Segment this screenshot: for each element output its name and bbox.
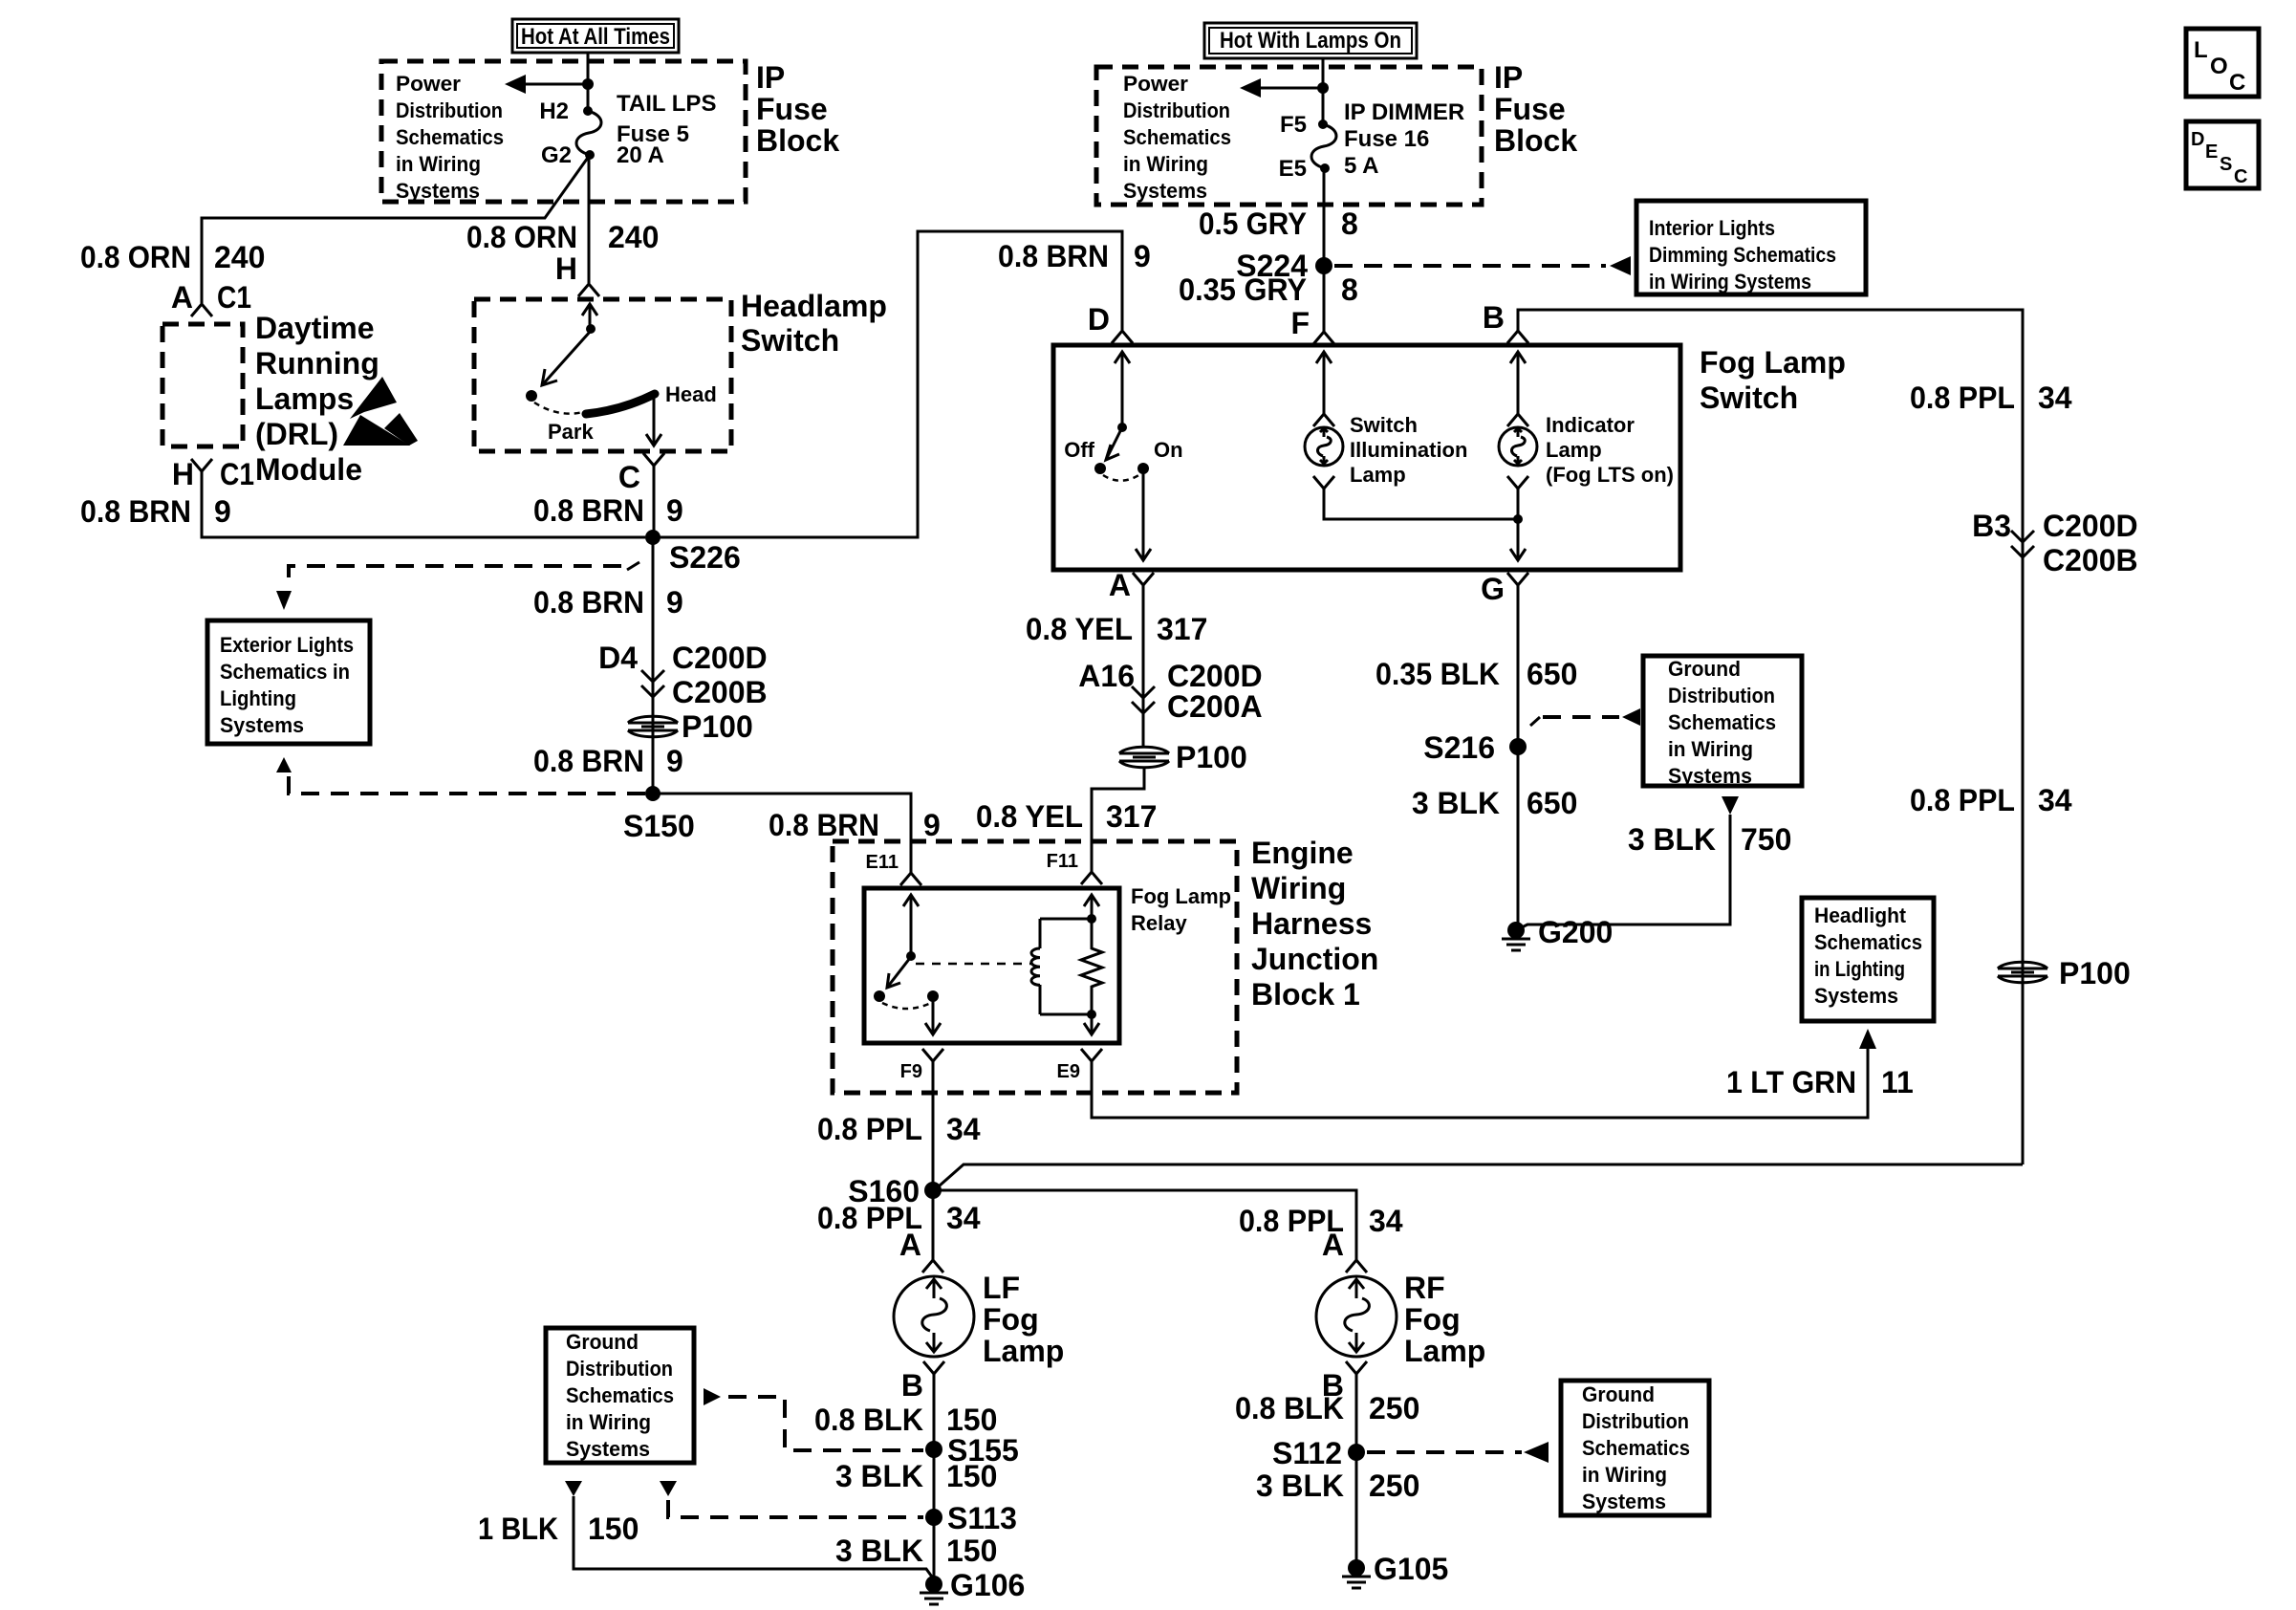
svg-text:Schematics in: Schematics in — [220, 660, 350, 684]
label 3 BLK 750 — [1628, 822, 1791, 857]
wire S226 to fog lamp switch D — [653, 231, 1122, 537]
svg-text:Fog Lamp: Fog Lamp — [1700, 345, 1846, 380]
svg-text:250: 250 — [1369, 1391, 1419, 1425]
svg-text:0.8 PPL: 0.8 PPL — [1910, 783, 2015, 817]
label 0.8 BRN 9 (below P100) — [533, 744, 683, 778]
svg-text:Fog Lamp: Fog Lamp — [1131, 884, 1231, 908]
svg-text:Block: Block — [756, 123, 839, 158]
connector C out of headlamp switch — [618, 453, 664, 494]
svg-text:Power: Power — [1123, 72, 1188, 96]
dashed reference from S226 to exterior lights — [276, 562, 639, 610]
svg-text:IP DIMMER: IP DIMMER — [1344, 99, 1464, 125]
svg-text:Distribution: Distribution — [396, 98, 503, 122]
label 0.35 GRY 8 — [1179, 272, 1358, 307]
svg-text:Switch: Switch — [1700, 381, 1798, 415]
svg-text:240: 240 — [608, 220, 659, 254]
wire fuse G2 down to headlamp switch — [588, 155, 591, 283]
svg-text:240: 240 — [214, 240, 265, 274]
wire fog switch B up and right — [1518, 310, 2023, 1164]
wire F9 down to S160 — [932, 1061, 935, 1190]
headlight schematics box — [1802, 898, 1934, 1021]
wire hot with lamps on into fuse 16 — [1322, 58, 1325, 124]
svg-text:0.8 BLK: 0.8 BLK — [1235, 1391, 1344, 1425]
label 1 BLK 150 — [478, 1512, 639, 1546]
label 0.8 PPL 34 (right run) — [1910, 783, 2072, 817]
svg-text:0.8 BRN: 0.8 BRN — [533, 585, 644, 620]
connector B out of LF fog lamp — [901, 1361, 944, 1403]
svg-text:317: 317 — [1157, 612, 1207, 646]
fuse terminal F5 — [1318, 120, 1328, 129]
wire P100 jog to F11 — [1092, 767, 1144, 872]
svg-text:Harness: Harness — [1251, 906, 1372, 941]
relay switch contacts — [874, 895, 941, 1034]
wire DRL H to S226 — [202, 471, 645, 537]
svg-text:L: L — [2194, 37, 2208, 63]
wire LF lamp to G106 — [933, 1374, 936, 1584]
svg-text:S216: S216 — [1423, 730, 1495, 765]
svg-text:Interior Lights: Interior Lights — [1649, 216, 1775, 240]
exterior lights schematics box — [207, 620, 370, 744]
ground distribution box (right) — [1561, 1381, 1709, 1515]
switch illumination lamp — [1305, 352, 1518, 519]
svg-text:250: 250 — [1369, 1469, 1419, 1503]
fog lamp relay label — [1131, 884, 1231, 935]
label 0.8 PPL 34 (F9) — [817, 1112, 981, 1146]
svg-text:0.8 BRN: 0.8 BRN — [769, 808, 879, 842]
svg-text:Systems: Systems — [1814, 984, 1898, 1008]
svg-text:Ground: Ground — [1668, 657, 1741, 681]
svg-text:C: C — [2229, 70, 2245, 96]
svg-text:9: 9 — [666, 493, 683, 528]
arrow up to headlight schematics — [1859, 1029, 1876, 1049]
svg-text:G105: G105 — [1374, 1552, 1448, 1586]
label 0.8 BLK 150 — [814, 1403, 997, 1437]
label 0.8 PPL 34 (fog switch B) — [1910, 381, 2072, 415]
svg-text:P100: P100 — [1176, 740, 1247, 774]
svg-text:B: B — [1483, 300, 1505, 335]
svg-text:S113: S113 — [947, 1501, 1017, 1535]
svg-text:Junction: Junction — [1251, 942, 1378, 976]
svg-text:750: 750 — [1741, 822, 1791, 857]
svg-text:0.8 YEL: 0.8 YEL — [976, 799, 1083, 834]
svg-text:9: 9 — [923, 808, 941, 842]
svg-text:Schematics: Schematics — [1123, 125, 1231, 149]
fuse IP DIMMER Fuse 16 5A — [1279, 99, 1465, 182]
connector A out of fog lamp switch — [1109, 568, 1154, 602]
svg-text:3 BLK: 3 BLK — [1628, 822, 1716, 857]
svg-text:IP: IP — [756, 60, 785, 95]
svg-text:G106: G106 — [950, 1568, 1025, 1602]
label 0.35 BLK 650 — [1375, 657, 1577, 691]
relay coil — [1031, 895, 1099, 1014]
svg-text:S150: S150 — [623, 809, 695, 843]
svg-text:Lamps: Lamps — [255, 381, 354, 416]
wire C to S226 — [653, 466, 656, 537]
svg-text:Hot With Lamps On: Hot With Lamps On — [1220, 28, 1401, 54]
wire 1 BLK 150 to G106 — [574, 1496, 934, 1579]
svg-text:Running: Running — [255, 346, 379, 381]
label 0.8 YEL 317 (to F11) — [976, 799, 1157, 834]
fog lamp switch box — [1053, 345, 1680, 570]
svg-text:Schematics: Schematics — [1582, 1436, 1690, 1460]
svg-text:A: A — [1322, 1228, 1344, 1262]
svg-text:A: A — [899, 1228, 921, 1262]
relay mechanical link — [916, 963, 1032, 966]
svg-text:Distribution: Distribution — [1123, 98, 1230, 122]
wire S226 down to S150 — [652, 537, 655, 794]
svg-text:Power: Power — [396, 72, 461, 96]
fuse TAIL LPS Fuse 5 20A — [541, 91, 716, 168]
svg-text:C200D: C200D — [672, 641, 768, 675]
svg-text:0.8 BRN: 0.8 BRN — [533, 744, 644, 778]
svg-text:in Wiring: in Wiring — [396, 152, 481, 176]
wire S160 down to LF lamp — [932, 1190, 935, 1260]
svg-text:E5: E5 — [1279, 156, 1307, 182]
svg-text:Lighting: Lighting — [220, 686, 296, 710]
fog lamp switch label — [1700, 345, 1846, 415]
label 3 BLK 250 — [1256, 1469, 1419, 1503]
label 0.8 BRN 9 (S226 to C200) — [533, 585, 683, 620]
svg-text:34: 34 — [946, 1112, 981, 1146]
svg-text:(Fog LTS on): (Fog LTS on) — [1546, 463, 1674, 487]
svg-text:0.8 BRN: 0.8 BRN — [533, 493, 644, 528]
svg-text:Block: Block — [1494, 123, 1577, 158]
svg-text:in Wiring: in Wiring — [566, 1410, 651, 1434]
svg-text:3 BLK: 3 BLK — [835, 1534, 923, 1568]
terminal F11 — [1047, 851, 1102, 884]
splice S226 — [645, 530, 741, 575]
svg-text:in Wiring: in Wiring — [1668, 737, 1753, 761]
svg-text:Off: Off — [1064, 438, 1094, 462]
svg-text:0.8 ORN: 0.8 ORN — [80, 240, 191, 274]
svg-text:5 A: 5 A — [1344, 153, 1378, 179]
interior lights dimming box — [1636, 201, 1866, 294]
wire RF lamp to G105 — [1355, 1374, 1358, 1568]
wire S150 to E11 — [653, 794, 911, 873]
wire from Hot At All Times into fuse block — [587, 53, 590, 111]
svg-text:D4: D4 — [598, 641, 638, 675]
svg-text:H: H — [172, 457, 194, 491]
label 1 LT GRN 11 — [1726, 1065, 1914, 1099]
grommet P100 (right) — [1998, 956, 2131, 990]
label 0.8 BRN 9 (fog switch feed) — [998, 239, 1151, 273]
svg-text:H2: H2 — [539, 98, 569, 124]
svg-text:Lamp: Lamp — [1546, 438, 1602, 462]
svg-text:G2: G2 — [541, 142, 572, 168]
LOC tab — [2186, 29, 2259, 97]
svg-text:(DRL): (DRL) — [255, 417, 338, 451]
connector F into fog lamp switch — [1290, 306, 1334, 344]
splice S216 — [1423, 730, 1527, 765]
svg-text:Indicator: Indicator — [1546, 413, 1635, 437]
svg-text:Head: Head — [665, 382, 717, 406]
headlamp switch dashed box — [474, 299, 731, 451]
splice S155 — [925, 1433, 1019, 1468]
headlamp switch contacts — [526, 304, 717, 446]
svg-text:Relay: Relay — [1131, 911, 1187, 935]
svg-text:in Wiring Systems: in Wiring Systems — [1649, 270, 1811, 294]
DRL module dashed box — [162, 324, 243, 446]
engine wiring harness junction block dashed box — [833, 841, 1237, 1093]
svg-text:3 BLK: 3 BLK — [835, 1459, 923, 1493]
wire 3 BLK 750 to G200 — [1516, 815, 1730, 930]
fog switch on/off contacts — [1064, 352, 1182, 560]
svg-text:Fog: Fog — [1404, 1302, 1461, 1337]
svg-text:Fuse 16: Fuse 16 — [1344, 126, 1429, 152]
connector A into LF fog lamp — [899, 1228, 943, 1273]
svg-text:C: C — [2234, 166, 2247, 187]
svg-text:S: S — [2220, 154, 2232, 175]
svg-text:E: E — [2205, 141, 2218, 163]
svg-text:C200B: C200B — [2043, 543, 2138, 577]
svg-text:C1: C1 — [217, 280, 251, 315]
svg-text:Systems: Systems — [396, 179, 480, 203]
connector C200D/C200B pin B3 — [1972, 509, 2138, 577]
svg-text:Hot At All Times: Hot At All Times — [521, 24, 670, 50]
svg-text:F5: F5 — [1280, 112, 1307, 138]
label 0.8 ORN 240 (left branch) — [80, 240, 265, 274]
terminal E11 — [866, 852, 921, 885]
svg-text:9: 9 — [666, 744, 683, 778]
svg-text:Engine: Engine — [1251, 836, 1354, 870]
svg-text:P100: P100 — [2059, 956, 2131, 990]
dashed reference from S112 to ground box — [1367, 1442, 1549, 1463]
svg-text:S112: S112 — [1272, 1436, 1342, 1470]
IP fuse block 1 label — [756, 60, 839, 158]
headlamp switch label — [741, 289, 887, 358]
ESD sensitive symbol — [343, 377, 418, 446]
IP fuse block 2 label — [1494, 60, 1577, 158]
svg-text:Headlamp: Headlamp — [741, 289, 887, 323]
svg-text:150: 150 — [946, 1534, 997, 1568]
svg-text:650: 650 — [1527, 786, 1577, 820]
svg-text:Fog: Fog — [983, 1302, 1039, 1337]
svg-text:LF: LF — [983, 1271, 1020, 1305]
ground distribution box (left) — [546, 1328, 694, 1463]
svg-text:Systems: Systems — [1668, 764, 1752, 788]
svg-text:150: 150 — [588, 1512, 639, 1546]
connector B out of RF fog lamp — [1322, 1361, 1367, 1403]
arrow from ground box down to 3 BLK 750 — [1722, 796, 1739, 815]
svg-text:D: D — [1088, 302, 1110, 337]
svg-text:C1: C1 — [220, 457, 254, 491]
svg-text:Distribution: Distribution — [566, 1357, 673, 1381]
svg-text:9: 9 — [666, 585, 683, 620]
label 0.5 GRY 8 — [1199, 207, 1358, 241]
svg-text:B: B — [901, 1368, 923, 1403]
svg-text:in Lighting: in Lighting — [1814, 957, 1905, 981]
splice S112 — [1272, 1436, 1365, 1470]
svg-text:G200: G200 — [1538, 915, 1613, 949]
svg-text:Ground: Ground — [1582, 1382, 1655, 1406]
svg-text:F9: F9 — [900, 1061, 922, 1082]
svg-text:Module: Module — [255, 452, 362, 487]
svg-text:Systems: Systems — [1582, 1490, 1666, 1513]
label 0.8 BRN 9 (park lamp feed) — [533, 493, 683, 528]
svg-text:A: A — [171, 280, 193, 315]
terminal F9 — [900, 1049, 943, 1082]
svg-text:Switch: Switch — [1350, 413, 1418, 437]
svg-text:P100: P100 — [682, 709, 753, 744]
svg-text:Block 1: Block 1 — [1251, 977, 1360, 1012]
svg-text:D: D — [2191, 129, 2204, 150]
svg-text:34: 34 — [946, 1201, 981, 1235]
svg-text:317: 317 — [1106, 799, 1157, 834]
svg-text:IP: IP — [1494, 60, 1523, 95]
svg-text:C200D: C200D — [2043, 509, 2138, 543]
svg-text:in Wiring: in Wiring — [1123, 152, 1208, 176]
svg-text:20 A: 20 A — [617, 142, 664, 168]
svg-text:A16: A16 — [1078, 659, 1135, 693]
ground G105 — [1342, 1552, 1448, 1588]
svg-text:1 LT GRN: 1 LT GRN — [1726, 1065, 1856, 1099]
ground G200 — [1502, 915, 1613, 950]
svg-text:0.8 BLK: 0.8 BLK — [814, 1403, 923, 1437]
DRL module label — [255, 311, 379, 487]
svg-text:34: 34 — [2038, 783, 2072, 817]
wire G down to G200 — [1516, 585, 1518, 930]
label 0.8 BLK 250 — [1235, 1391, 1419, 1425]
svg-text:Distribution: Distribution — [1668, 684, 1775, 707]
label 0.8 PPL 34 (LF) — [817, 1201, 981, 1235]
svg-text:0.5 GRY: 0.5 GRY — [1199, 207, 1307, 241]
svg-text:9: 9 — [1134, 239, 1151, 273]
svg-text:Lamp: Lamp — [983, 1334, 1064, 1368]
svg-text:Distribution: Distribution — [1582, 1409, 1689, 1433]
connector B into fog lamp switch — [1483, 300, 1528, 343]
IP fuse block 1 dashed box — [381, 61, 746, 202]
power distribution schematics note 2 — [1123, 72, 1231, 203]
svg-text:8: 8 — [1341, 272, 1358, 307]
svg-text:B3: B3 — [1972, 509, 2011, 543]
svg-text:1 BLK: 1 BLK — [478, 1512, 558, 1546]
svg-text:3 BLK: 3 BLK — [1412, 786, 1500, 820]
svg-text:Systems: Systems — [1123, 179, 1207, 203]
dashed reference from ground box to S113 — [660, 1481, 923, 1517]
grommet P100 (left) — [628, 709, 753, 744]
indicator lamp (fog lts on) — [1499, 352, 1674, 560]
svg-text:Systems: Systems — [220, 713, 304, 737]
svg-text:F11: F11 — [1047, 851, 1078, 872]
engine harness label — [1251, 836, 1378, 1012]
svg-text:TAIL LPS: TAIL LPS — [617, 91, 716, 117]
svg-text:C200A: C200A — [1167, 689, 1263, 724]
connector D into fog lamp switch — [1088, 302, 1133, 343]
node at fuse 16 feed — [1317, 82, 1329, 94]
svg-text:3 BLK: 3 BLK — [1256, 1469, 1344, 1503]
svg-text:0.8 YEL: 0.8 YEL — [1026, 612, 1133, 646]
fuse terminal H2 — [583, 106, 593, 116]
label 0.8 BRN 9 (DRL out) — [80, 494, 231, 529]
svg-text:Daytime: Daytime — [255, 311, 375, 345]
relay resistor — [1040, 919, 1102, 1034]
svg-text:H: H — [555, 251, 577, 286]
svg-text:0.8 BRN: 0.8 BRN — [80, 494, 191, 529]
power distribution schematics note 1 — [396, 72, 504, 203]
svg-text:150: 150 — [946, 1459, 997, 1493]
svg-text:O: O — [2210, 54, 2228, 79]
wire A down to C200 — [1142, 585, 1145, 748]
splice S160 — [848, 1174, 942, 1208]
svg-text:F: F — [1290, 306, 1310, 340]
svg-text:Lamp: Lamp — [1404, 1334, 1485, 1368]
connector A into RF fog lamp — [1322, 1228, 1367, 1273]
svg-text:0.35 GRY: 0.35 GRY — [1179, 272, 1307, 307]
terminal E9 — [1057, 1049, 1102, 1082]
svg-text:Illumination: Illumination — [1350, 438, 1467, 462]
arrow to power distribution (left) — [505, 75, 588, 94]
svg-text:34: 34 — [1369, 1204, 1403, 1238]
svg-text:A: A — [1109, 568, 1131, 602]
connector H into headlamp switch — [555, 251, 599, 296]
fog lamp relay box — [864, 888, 1119, 1043]
svg-text:0.8 BRN: 0.8 BRN — [998, 239, 1109, 273]
svg-text:On: On — [1154, 438, 1183, 462]
splice S224 — [1236, 249, 1332, 283]
svg-text:Wiring: Wiring — [1251, 871, 1346, 905]
svg-text:Schematics: Schematics — [396, 125, 504, 149]
label 0.8 BRN 9 (to E11) — [769, 808, 941, 842]
svg-text:Ground: Ground — [566, 1330, 639, 1354]
svg-text:Fuse: Fuse — [1494, 92, 1566, 126]
svg-text:C200D: C200D — [1167, 659, 1263, 693]
svg-text:650: 650 — [1527, 657, 1577, 691]
label 0.8 ORN 240 (headlamp feed) — [466, 220, 659, 254]
svg-text:E9: E9 — [1057, 1061, 1080, 1082]
dashed reference from S150 to exterior lights — [276, 757, 645, 794]
label 0.8 YEL 317 — [1026, 612, 1207, 646]
IP fuse block 2 dashed box — [1096, 67, 1482, 205]
connector H C1 out of DRL module — [172, 457, 254, 491]
svg-text:Schematics: Schematics — [1668, 710, 1776, 734]
svg-text:Switch: Switch — [741, 323, 839, 358]
svg-text:0.8 PPL: 0.8 PPL — [817, 1112, 922, 1146]
wire G2 diagonal to DRL branch — [202, 155, 590, 303]
svg-text:0.35 BLK: 0.35 BLK — [1375, 657, 1500, 691]
svg-text:11: 11 — [1881, 1065, 1914, 1099]
node at fuse feed — [582, 78, 594, 90]
grommet P100 (center) — [1119, 740, 1247, 774]
wire S160 to RF fog lamp — [941, 1190, 1356, 1260]
header Hot At All Times — [512, 19, 679, 53]
dashed reference from G wire to ground box — [1530, 708, 1640, 726]
svg-text:C200B: C200B — [672, 675, 768, 709]
svg-text:Schematics: Schematics — [1814, 930, 1922, 954]
DESC tab — [2186, 121, 2259, 188]
arrow from ground box to 1 BLK wire — [565, 1481, 582, 1496]
label 3 BLK 150 (S155-S113) — [835, 1459, 997, 1493]
label 0.8 PPL 34 (RF) — [1239, 1204, 1403, 1238]
svg-text:Park: Park — [548, 420, 594, 444]
svg-text:Dimming Schematics: Dimming Schematics — [1649, 243, 1836, 267]
svg-text:Fuse: Fuse — [756, 92, 828, 126]
svg-text:E11: E11 — [866, 852, 899, 873]
svg-text:8: 8 — [1341, 207, 1358, 241]
label 3 BLK 150 (S113-G106) — [835, 1534, 997, 1568]
connector C200D/C200A pin A16 — [1078, 659, 1262, 724]
svg-text:0.8 ORN: 0.8 ORN — [466, 220, 577, 254]
svg-text:0.8 PPL: 0.8 PPL — [1910, 381, 2015, 415]
svg-text:Schematics: Schematics — [566, 1383, 674, 1407]
connector A C1 into DRL module — [171, 280, 251, 316]
splice S150 — [623, 786, 695, 843]
svg-text:Lamp: Lamp — [1350, 463, 1406, 487]
svg-text:150: 150 — [946, 1403, 997, 1437]
svg-text:C: C — [618, 460, 640, 494]
svg-text:34: 34 — [2038, 381, 2072, 415]
wire E9 to headlight schematics — [1092, 1048, 1868, 1118]
svg-text:9: 9 — [214, 494, 231, 529]
